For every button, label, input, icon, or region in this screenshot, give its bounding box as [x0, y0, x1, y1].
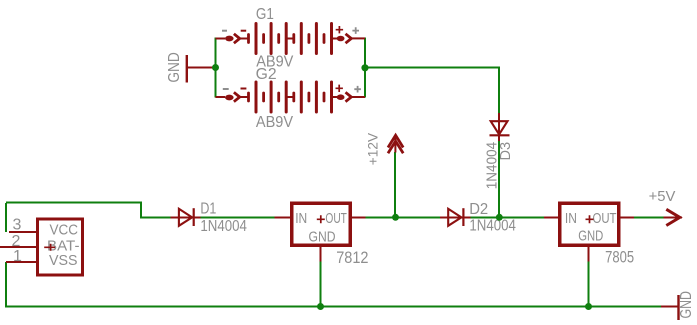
svg-text:VSS: VSS — [49, 252, 78, 269]
svg-text:GND: GND — [309, 229, 336, 246]
battery G1 — [216, 24, 366, 54]
wire VCC top link from connector pin3 — [6, 203, 171, 218]
junction node 7805 gnd — [585, 303, 592, 310]
svg-text:1N4004: 1N4004 — [200, 218, 247, 235]
wire 7805 GND to rail — [588, 262, 590, 307]
supply arrow +5V — [664, 209, 683, 225]
junction node +12V tap — [392, 214, 399, 221]
wire 7805 OUT to +5V — [634, 217, 664, 219]
junction node 7812 gnd — [317, 303, 324, 310]
wire battery + rail to D3 — [365, 68, 499, 114]
wire +12V riser — [394, 152, 396, 217]
svg-text:D3: D3 — [498, 142, 514, 161]
battery G2 — [216, 82, 366, 112]
svg-text:+5V: +5V — [649, 189, 676, 205]
wire 7812 GND to rail — [320, 262, 322, 307]
svg-text:1N4004: 1N4004 — [469, 218, 516, 235]
svg-text:D1: D1 — [200, 201, 216, 218]
wire 7812 OUT to D2 — [366, 217, 441, 219]
ground symbol left — [187, 55, 214, 83]
svg-text:GND: GND — [678, 291, 695, 319]
svg-text:+12V: +12V — [365, 132, 381, 165]
svg-text:OUT: OUT — [593, 210, 617, 227]
svg-text:IN: IN — [565, 210, 577, 227]
wire connector pin1 to bottom rail — [5, 262, 7, 307]
svg-text:D2: D2 — [469, 201, 488, 218]
diode D1 1N4004 — [171, 208, 201, 226]
voltage regulator IC1 7812 — [275, 203, 366, 261]
wire battery right vertical — [364, 38, 366, 98]
svg-text:AB9V: AB9V — [256, 114, 293, 131]
svg-text:G2: G2 — [256, 66, 277, 83]
svg-text:GND: GND — [578, 228, 603, 245]
svg-text:3: 3 — [13, 217, 22, 234]
junction node battery left — [212, 64, 219, 71]
svg-text:GND: GND — [166, 52, 183, 82]
svg-text:VCC: VCC — [50, 222, 79, 239]
ground symbol bottom right — [661, 295, 679, 320]
wire battery left vertical — [215, 38, 217, 98]
svg-text:OUT: OUT — [325, 210, 347, 227]
wire D2 to 7805 IN — [471, 217, 545, 219]
junction node battery right — [361, 64, 368, 71]
voltage regulator IC2 7805 — [544, 203, 634, 261]
junction node D2-D3 — [496, 214, 503, 221]
svg-text:IN: IN — [295, 210, 307, 227]
wire D3 to D2 node — [498, 141, 500, 217]
diode D2 1N4004 — [440, 208, 471, 226]
supply symbol +12V — [388, 135, 403, 153]
wire connector pin3 riser — [5, 203, 7, 232]
diode D3 1N4004 — [490, 113, 510, 141]
wire D1 to 7812 IN — [200, 217, 275, 219]
connector battery-clip X1 — [0, 219, 83, 275]
svg-text:7812: 7812 — [336, 248, 368, 267]
svg-text:1: 1 — [13, 248, 22, 265]
wire bottom ground rail — [5, 306, 661, 308]
svg-text:7805: 7805 — [605, 248, 634, 267]
svg-text:G1: G1 — [256, 6, 274, 23]
